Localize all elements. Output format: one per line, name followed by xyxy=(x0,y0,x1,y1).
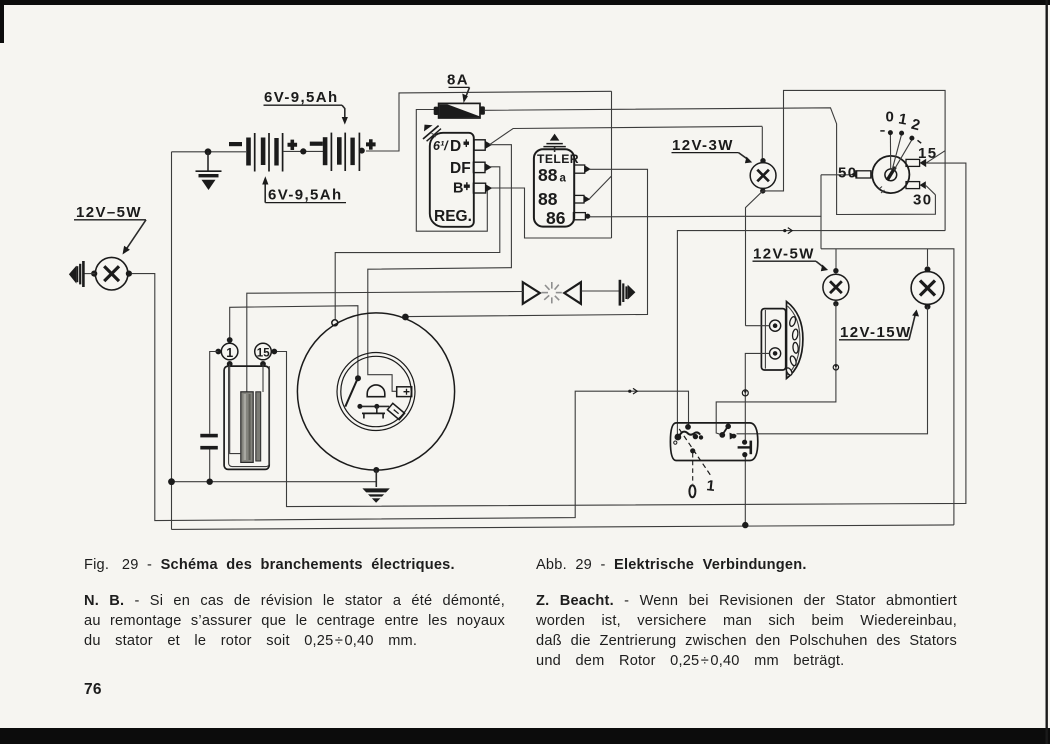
capacitor C1 xyxy=(200,434,218,450)
wire D+ diagonal to lamp line xyxy=(490,126,763,144)
wire spark gap link xyxy=(582,290,620,292)
pin D+ xyxy=(474,140,485,150)
connector on run xyxy=(783,228,792,234)
paragraph French N.B. xyxy=(84,593,505,609)
wire 86 to junction xyxy=(590,215,746,218)
wire 15-to-cylinder run xyxy=(677,231,945,436)
wire horn bottom to cylinder earth xyxy=(745,353,769,440)
page number 76 xyxy=(84,681,102,699)
svg-text:B: B xyxy=(453,181,463,197)
wire lamp3W bottom diagonal to junction xyxy=(746,191,763,326)
wire flywheel ground stem xyxy=(375,470,377,487)
fuse F1 8A xyxy=(434,103,485,118)
wire 5W right top stub xyxy=(835,249,837,268)
pin B+ xyxy=(473,183,485,193)
svg-text:30: 30 xyxy=(913,192,933,209)
svg-text:12V-5W: 12V-5W xyxy=(753,246,815,263)
wire battery minus feed xyxy=(172,151,247,153)
wire coil15 internal xyxy=(262,364,264,392)
wire 5W right bottom to cylinder xyxy=(716,304,836,435)
caption Fig 29 French xyxy=(84,557,514,573)
wire switch15 to coil15 long run xyxy=(274,163,966,507)
lamp 12V-15W (headlamp) xyxy=(911,266,944,309)
page frame bottom edge xyxy=(0,728,1050,744)
svg-text:6V-9,5Ah: 6V-9,5Ah xyxy=(264,89,339,106)
caption Abb 29 German xyxy=(536,557,976,573)
node battery minus junction xyxy=(205,148,212,155)
wire 50 terminal lead xyxy=(821,174,852,176)
pin 86 xyxy=(573,213,585,220)
svg-text:6¹/: 6¹/ xyxy=(433,139,449,153)
internal earth tee xyxy=(362,406,385,418)
wire DF to flywheel field xyxy=(335,167,500,320)
svg-text:12V–5W: 12V–5W xyxy=(76,204,142,221)
battery B2 6V-9,5Ah xyxy=(310,133,376,171)
wire left long vertical (battery minus down) xyxy=(171,152,173,530)
wire D+ to flywheel armature xyxy=(368,145,512,392)
lamp 12V-3W (charge indicator) xyxy=(750,158,776,194)
svg-text:TELER: TELER xyxy=(537,152,579,166)
terminal 30 xyxy=(906,182,920,189)
wire B+ to fuse left xyxy=(416,110,487,232)
ignition coil box xyxy=(224,366,269,469)
node battery mid junction xyxy=(300,148,306,154)
svg-text:a: a xyxy=(560,173,567,185)
page frame left edge xyxy=(0,0,4,43)
wire lamp 12V-3W top drop xyxy=(761,127,763,159)
svg-text:88: 88 xyxy=(538,165,558,185)
svg-text:1: 1 xyxy=(706,477,717,495)
wire lamp3W bottom to 15 net xyxy=(763,90,945,230)
wire battery link xyxy=(283,150,323,152)
paragraph German Z.Beacht xyxy=(536,593,957,609)
svg-text:0: 0 xyxy=(886,109,896,126)
spark plug symbol xyxy=(620,280,636,306)
earth symbol at left lamp xyxy=(69,261,95,287)
breaker points inside flywheel xyxy=(345,375,389,409)
regulator REG box xyxy=(430,133,474,227)
pin 88a xyxy=(574,165,585,173)
svg-text:15: 15 xyxy=(257,348,270,360)
pin DF xyxy=(473,162,485,172)
ground symbol under flywheel xyxy=(358,488,398,502)
wire capacitor to ground bus xyxy=(209,450,211,482)
connector circle on 5W bottom wire xyxy=(833,365,838,370)
page frame right edge xyxy=(1046,0,1048,744)
wire beam bottom to B+ xyxy=(489,188,612,238)
cylinder earth tee xyxy=(742,440,747,445)
connector ring on rim (DF) xyxy=(332,320,338,326)
node rim terminal (lighting) xyxy=(402,314,409,321)
wire coil1 internal xyxy=(230,364,241,454)
wire diagonal to 30 terminal xyxy=(926,186,935,195)
svg-text:86: 86 xyxy=(546,208,566,228)
node battery plus junction xyxy=(359,148,365,154)
flywheel magneto rotor xyxy=(297,313,454,470)
svg-text:88: 88 xyxy=(538,189,558,209)
svg-text:6V-9,5Ah: 6V-9,5Ah xyxy=(268,187,343,204)
svg-text:8A: 8A xyxy=(447,72,469,89)
terminal 15 xyxy=(906,159,920,166)
wire battery plus to top beam xyxy=(366,91,612,151)
wire horn top lead xyxy=(746,325,770,327)
horn xyxy=(761,302,803,379)
node flywheel bottom xyxy=(373,467,379,473)
condenser plus box inside flywheel xyxy=(397,387,412,397)
wire beam down right of TELER xyxy=(611,91,613,238)
wire 88a to flywheel lighting coil xyxy=(408,169,648,316)
pin 88 xyxy=(574,195,584,203)
spark gap symbol xyxy=(523,282,581,304)
wire left lamp to bottom run xyxy=(132,274,689,521)
antenna symbol on TELER xyxy=(543,134,565,152)
wire 86 junction to 50 drop xyxy=(746,175,822,217)
wire cylinder earth to ground line xyxy=(744,456,746,525)
svg-text:D: D xyxy=(450,138,461,155)
svg-text:15: 15 xyxy=(918,145,938,162)
node ground bus left xyxy=(168,478,175,485)
wire diagonal to relay 88 xyxy=(590,176,612,199)
svg-text:1: 1 xyxy=(226,346,233,360)
minus box tilted inside flywheel xyxy=(387,403,404,419)
svg-text:12V-15W: 12V-15W xyxy=(840,324,912,341)
wire diagonal to 15 arrow xyxy=(926,151,945,163)
lamp 12V-5W left (tail lamp) xyxy=(91,257,132,290)
node on ground line xyxy=(742,522,748,528)
coil terminal circle 1 xyxy=(215,337,238,367)
ground symbol under battery xyxy=(196,171,222,190)
svg-text:12V-3W: 12V-3W xyxy=(672,137,734,154)
wire ground bus xyxy=(172,481,377,483)
wire 50 drop down to lamp tops run xyxy=(820,216,822,249)
lamp 12V-5W right (horn/city lamp) xyxy=(823,268,849,306)
ignition switch xyxy=(838,109,938,209)
terminal 50 xyxy=(856,171,871,178)
handlebar switch cylinder xyxy=(670,423,757,497)
wire 15W bottom to cylinder xyxy=(737,307,928,434)
page frame top edge xyxy=(0,0,1050,5)
wire bottom ground line B xyxy=(172,525,954,530)
battery B1 6V-9,5Ah xyxy=(229,133,297,172)
svg-text:REG.: REG. xyxy=(434,208,472,225)
coil terminal circle 15 xyxy=(255,343,277,367)
chassis hatch mark at REG corner xyxy=(423,125,441,142)
wire coil terminal1 to breaker points xyxy=(230,306,358,376)
svg-text:DF: DF xyxy=(450,160,471,177)
connector circle on horn earth wire xyxy=(742,390,748,396)
wire fuse right long feed to switch box xyxy=(485,108,935,215)
connector on left-lamp line xyxy=(628,388,637,394)
wire coil left to capacitor xyxy=(210,352,219,434)
wire HT coil secondary to spark gap xyxy=(247,292,523,393)
relay TELER box xyxy=(534,149,579,228)
cam inside flywheel xyxy=(367,385,385,397)
node ground bus capacitor xyxy=(207,479,213,485)
wire 15W top stub xyxy=(927,249,929,266)
wire lamp tops run xyxy=(821,249,954,525)
wire ground stem under battery xyxy=(207,152,209,171)
